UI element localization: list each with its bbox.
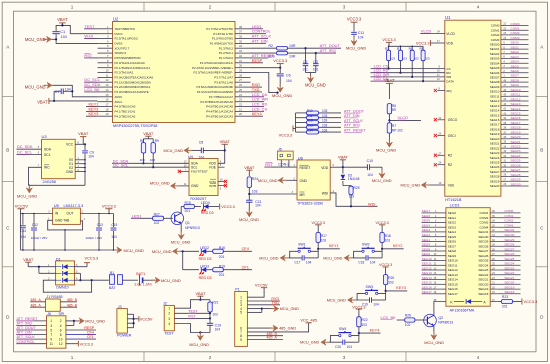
svg-text:37: 37 xyxy=(239,30,242,34)
power port VBAT at U3 VCC xyxy=(78,131,89,144)
svg-text:SEG23: SEG23 xyxy=(504,266,514,270)
svg-text:OSCO: OSCO xyxy=(448,118,458,122)
svg-text:VCC3.3: VCC3.3 xyxy=(102,204,117,209)
svg-text:P4.7/TB0CLK/CA7: P4.7/TB0CLK/CA7 xyxy=(209,95,233,99)
power VCC3.3 rail for LCD pull-ups xyxy=(382,38,423,47)
svg-text:COM3: COM3 xyxy=(511,36,520,40)
svg-text:MCU_GND: MCU_GND xyxy=(164,148,184,153)
net RST wire J2 pin3 xyxy=(174,313,211,323)
svg-text:4: 4 xyxy=(477,5,480,10)
svg-text:SEG31: SEG31 xyxy=(478,230,488,234)
svg-text:SEG25: SEG25 xyxy=(490,161,500,165)
svg-text:SEG17: SEG17 xyxy=(490,123,500,127)
svg-text:R11: R11 xyxy=(307,114,313,118)
svg-text:COM2: COM2 xyxy=(479,216,488,220)
ic U1 HT1621B body xyxy=(445,15,501,202)
svg-text:SEG5: SEG5 xyxy=(448,235,457,239)
svg-text:5: 5 xyxy=(50,328,52,332)
net label ATT_SCLK to J6 pin9 xyxy=(16,335,46,339)
svg-text:SEG19: SEG19 xyxy=(504,285,514,289)
svg-text:SEG1: SEG1 xyxy=(511,45,520,49)
svg-text:C1: C1 xyxy=(60,29,65,34)
net label ATT_DIN to J6 pin7 xyxy=(16,331,46,335)
svg-text:P4.4/TB0.1/A13/CA4: P4.4/TB0.1/A13/CA4 xyxy=(206,110,233,114)
svg-text:VCC3.3: VCC3.3 xyxy=(382,38,395,42)
svg-text:5: 5 xyxy=(240,311,242,315)
svg-text:SEG01: SEG01 xyxy=(490,47,500,51)
net label 485_A wires at J1 left xyxy=(30,298,45,307)
svg-text:31: 31 xyxy=(239,59,242,63)
svg-text:SEG14: SEG14 xyxy=(448,278,458,282)
power port VBAT above R24 xyxy=(244,165,255,176)
svg-text:SEG6: SEG6 xyxy=(511,69,520,73)
svg-text:4: 4 xyxy=(477,355,480,360)
svg-text:201: 201 xyxy=(185,209,191,213)
power VCC5V at P1 pin1 xyxy=(247,284,268,298)
ic U5 LM1117-3.3 body xyxy=(53,203,84,224)
svg-text:R4: R4 xyxy=(409,47,413,51)
svg-text:CF1: CF1 xyxy=(242,265,249,270)
svg-text:SEG8: SEG8 xyxy=(422,247,431,251)
svg-text:VCC3.3: VCC3.3 xyxy=(221,204,235,209)
power VCC3.3 feeding resistor array R10-R14 xyxy=(279,113,296,138)
svg-text:P1.1/TA0.0: P1.1/TA0.0 xyxy=(219,56,234,60)
resistor R11 103 to net ATT_DIN xyxy=(296,114,360,120)
svg-text:104: 104 xyxy=(111,235,117,239)
svg-text:VCC3.3: VCC3.3 xyxy=(347,17,362,22)
svg-text:103: 103 xyxy=(322,124,328,128)
svg-text:VBAT: VBAT xyxy=(338,155,349,160)
svg-text:104: 104 xyxy=(255,204,261,208)
svg-text:U3: U3 xyxy=(42,134,48,139)
svg-text:35: 35 xyxy=(239,39,242,43)
svg-text:KEY4: KEY4 xyxy=(370,328,380,332)
svg-text:SEG19: SEG19 xyxy=(478,287,488,291)
svg-text:104: 104 xyxy=(286,79,292,83)
svg-text:SEG16: SEG16 xyxy=(448,287,458,291)
svg-text:29: 29 xyxy=(239,69,242,73)
svg-text:SEG20: SEG20 xyxy=(490,137,500,141)
svg-text:VBAT: VBAT xyxy=(244,165,255,170)
svg-text:P2.0/TA1CLK/ACLK/A0: P2.0/TA1CLK/ACLK/A0 xyxy=(115,61,146,65)
svg-text:10: 10 xyxy=(106,69,109,73)
svg-text:24G256: 24G256 xyxy=(43,180,57,184)
capacitor C14 104 xyxy=(20,214,26,251)
svg-text:RED D3: RED D3 xyxy=(199,276,212,280)
ic U6 TPS3823-33DB body xyxy=(297,155,330,205)
wire/net DC_SCL bus to U4 xyxy=(113,164,190,168)
capacitor C18 104 xyxy=(358,255,375,264)
svg-text:C3: C3 xyxy=(313,60,318,64)
capacitor C20 104 xyxy=(335,340,352,349)
svg-text:ATT_DIN: ATT_DIN xyxy=(252,38,268,43)
svg-text:SEG19: SEG19 xyxy=(511,130,521,134)
resistor R27 102 xyxy=(153,213,173,226)
svg-text:ATT_IRQ: ATT_IRQ xyxy=(344,124,360,128)
connector J6 pin numbers xyxy=(50,319,63,346)
connector P1 pin numbers xyxy=(240,296,242,342)
svg-text:17: 17 xyxy=(106,103,109,107)
svg-text:R20: R20 xyxy=(388,276,394,280)
wire/net DC_SDA bus to U4 xyxy=(112,159,189,163)
svg-text:10R: 10R xyxy=(289,55,296,59)
svg-text:9: 9 xyxy=(50,337,52,341)
svg-text:SEG23: SEG23 xyxy=(511,149,521,153)
net label 485_A at P1 pin9 xyxy=(247,336,283,340)
power VCC3.3 and capacitor C6 at U2 pin30 xyxy=(251,58,293,98)
svg-text:104: 104 xyxy=(65,87,71,91)
resistor R24 103 xyxy=(247,177,258,194)
svg-text:SEG9: SEG9 xyxy=(511,83,520,87)
capacitor C9 104 xyxy=(82,144,94,185)
wire/net ATT_IRQ from R2b xyxy=(288,48,337,54)
svg-text:SEG3: SEG3 xyxy=(448,225,457,229)
svg-text:RESP: RESP xyxy=(252,58,263,63)
battery BAT1 3.6V 1.2Ah xyxy=(134,272,151,287)
svg-text:SEG03: SEG03 xyxy=(490,57,500,61)
svg-text:HT1621B: HT1621B xyxy=(445,197,462,202)
net label KEY1 xyxy=(317,244,340,250)
svg-text:SEG7: SEG7 xyxy=(422,209,431,213)
svg-text:ATT_RESET: ATT_RESET xyxy=(344,129,366,133)
svg-text:RED D3: RED D3 xyxy=(201,211,214,215)
svg-text:RST: RST xyxy=(188,315,196,319)
net label ATT_RESET at U2 pin32 xyxy=(251,53,275,58)
battery holder B1 BAT xyxy=(109,271,138,290)
led LED2 RED D3 xyxy=(183,246,213,261)
svg-text:MCU_GND: MCU_GND xyxy=(152,249,172,254)
svg-text:38: 38 xyxy=(239,25,242,29)
svg-text:R15: R15 xyxy=(185,201,191,205)
svg-text:J6: J6 xyxy=(47,312,51,316)
svg-text:ATT_SCLK: ATT_SCLK xyxy=(344,119,363,123)
svg-text:30: 30 xyxy=(239,64,242,68)
svg-text:C13: C13 xyxy=(97,223,103,227)
svg-text:C7: C7 xyxy=(55,90,60,94)
svg-text:P3.0/UCB0STE/UCA0CLK/A5: P3.0/UCB0STE/UCA0CLK/A5 xyxy=(115,76,154,80)
led LED4 RED D3 xyxy=(201,201,220,215)
svg-text:ATT_DOUT: ATT_DOUT xyxy=(344,109,364,113)
svg-text:ATT_DIN: ATT_DIN xyxy=(344,114,360,118)
net label RESP at J6 pin6 xyxy=(66,326,96,330)
switch SW3 xyxy=(365,285,378,295)
svg-text:SEG22: SEG22 xyxy=(504,271,514,275)
ground MCU_GND right of C10 xyxy=(372,167,392,183)
svg-text:R2: R2 xyxy=(385,47,389,51)
svg-text:SEG3: SEG3 xyxy=(422,228,431,232)
svg-text:102: 102 xyxy=(154,221,160,225)
svg-text:10R: 10R xyxy=(289,44,296,48)
svg-text:MCU_GND: MCU_GND xyxy=(327,299,346,303)
svg-text:C12: C12 xyxy=(32,223,38,227)
svg-text:103: 103 xyxy=(322,128,328,132)
svg-text:104: 104 xyxy=(347,345,353,349)
wire/net LCD_CS to U1 CS pin9 xyxy=(371,64,451,70)
svg-text:MCU_GND: MCU_GND xyxy=(424,340,444,345)
svg-text:J2: J2 xyxy=(163,302,167,306)
svg-text:SEG05: SEG05 xyxy=(490,66,500,70)
svg-text:U6: U6 xyxy=(298,155,304,160)
net labels SEG at LCD1 left xyxy=(422,209,438,294)
svg-text:VBAT: VBAT xyxy=(23,257,34,262)
svg-text:485_B: 485_B xyxy=(67,303,78,307)
wire/net LCD_DA to U1 DATA pin12 xyxy=(371,77,454,83)
svg-text:104: 104 xyxy=(215,327,221,331)
svg-text:R18: R18 xyxy=(385,234,391,238)
svg-text:SPI: SPI xyxy=(59,312,65,316)
svg-text:SEG6: SEG6 xyxy=(448,240,457,244)
ground MCU_GND at C2 C3 xyxy=(305,73,326,88)
svg-text:P1.4/SMCLK/TCK: P1.4/SMCLK/TCK xyxy=(210,42,233,46)
net label CF4 at J6 pin8 xyxy=(66,331,96,335)
power VCC3.3 above R17 xyxy=(312,221,325,232)
svg-text:LCD_BK: LCD_BK xyxy=(84,87,100,92)
ground MCU_GND at U4 GND pin11 xyxy=(150,180,189,189)
svg-text:W-DI: W-DI xyxy=(84,34,93,39)
svg-text:RESET: RESET xyxy=(300,166,311,170)
svg-text:DATA: DATA xyxy=(446,79,454,83)
svg-text:8R: 8R xyxy=(392,108,397,112)
svg-text:P4.6/TB0OUTH/A15/CA6: P4.6/TB0OUTH/A15/CA6 xyxy=(200,100,233,104)
led LED3 RED D3 xyxy=(183,264,213,279)
svg-text:2: 2 xyxy=(60,319,62,323)
svg-text:SEG7: SEG7 xyxy=(511,74,520,78)
svg-text:COM2: COM2 xyxy=(511,31,520,35)
svg-text:104: 104 xyxy=(61,35,67,39)
resistor R8 103 xyxy=(140,139,146,165)
svg-text:XIN/P2.6: XIN/P2.6 xyxy=(115,51,127,55)
power VCC3.3 above R18 xyxy=(375,221,388,232)
svg-text:SEG24: SEG24 xyxy=(504,262,514,266)
ground MCU_GND at J2 xyxy=(189,332,209,347)
svg-text:SEG24: SEG24 xyxy=(478,263,488,267)
svg-text:NP-102: NP-102 xyxy=(392,128,403,132)
svg-text:SEG27: SEG27 xyxy=(490,170,500,174)
svg-text:SEG08: SEG08 xyxy=(490,80,500,84)
svg-text:103: 103 xyxy=(402,57,407,61)
svg-text:R9: R9 xyxy=(155,139,159,143)
svg-text:RED D3: RED D3 xyxy=(199,257,212,261)
svg-text:COM0: COM0 xyxy=(491,24,500,28)
svg-text:P2.5/TA1.0/ROSC: P2.5/TA1.0/ROSC xyxy=(115,37,138,41)
svg-text:11: 11 xyxy=(50,342,54,346)
svg-text:SEG22: SEG22 xyxy=(511,145,521,149)
svg-text:19: 19 xyxy=(106,112,109,116)
svg-text:SEG17: SEG17 xyxy=(448,292,458,296)
capacitor C2 101 xyxy=(302,48,308,72)
svg-text:SEG1: SEG1 xyxy=(422,238,431,242)
svg-text:VDD: VDD xyxy=(321,166,329,170)
ic U1 right pins COM0-COM3 SEG00-SEG30 xyxy=(490,23,509,188)
svg-text:MCU_GND: MCU_GND xyxy=(259,256,278,260)
svg-text:P4.3/TB0.0/A12/CA3: P4.3/TB0.0/A12/CA3 xyxy=(206,114,233,118)
power VCC3.3 at J6 pin12 xyxy=(66,341,93,347)
ic U1 RZb pin26 no-connect xyxy=(434,162,452,167)
resistor R7 NP-102 xyxy=(387,120,403,141)
svg-text:201: 201 xyxy=(219,255,225,259)
svg-text:23: 23 xyxy=(239,98,242,102)
svg-text:SEG20: SEG20 xyxy=(504,281,514,285)
svg-text:MCU_GND: MCU_GND xyxy=(280,307,299,311)
svg-text:COM3: COM3 xyxy=(504,224,513,228)
svg-text:SEG14: SEG14 xyxy=(511,107,521,111)
svg-text:J1 RS485: J1 RS485 xyxy=(46,295,62,299)
svg-text:OSCI: OSCI xyxy=(448,134,456,138)
svg-text:P3.6/TA1.1/A6: P3.6/TA1.1/A6 xyxy=(214,80,233,84)
ground MCU_GND at Q1 emitter xyxy=(171,224,191,245)
svg-text:485_A: 485_A xyxy=(30,303,41,307)
svg-text:WDI: WDI xyxy=(322,192,328,196)
svg-text:16: 16 xyxy=(106,98,109,102)
resistor R6 8R2 xyxy=(387,104,396,121)
capacitor C8 104 at U4 VDD xyxy=(196,140,225,159)
svg-text:P4.2/TB2.0/CA2: P4.2/TB2.0/CA2 xyxy=(115,114,136,118)
ic U2 right pins 20-38 xyxy=(192,25,250,119)
svg-text:SEG4: SEG4 xyxy=(422,224,431,228)
svg-text:2: 2 xyxy=(209,5,212,10)
wires switch SW2 loop xyxy=(354,249,383,258)
svg-text:DC_SCL: DC_SCL xyxy=(17,151,32,155)
resistor R3 103 pull-up xyxy=(397,46,407,73)
svg-text:103: 103 xyxy=(425,57,430,61)
svg-text:CF4: CF4 xyxy=(242,246,250,251)
svg-text:SEG26: SEG26 xyxy=(511,163,521,167)
svg-text:LED2: LED2 xyxy=(200,246,209,250)
power VCC3.3 at R23 xyxy=(522,299,537,305)
svg-text:2: 2 xyxy=(209,355,212,360)
svg-text:P2.4/TA0.2/A4/VREF+/VEREF+: P2.4/TA0.2/A4/VREF+/VEREF+ xyxy=(192,66,233,70)
svg-text:SEG4: SEG4 xyxy=(448,230,457,234)
svg-text:SEG18: SEG18 xyxy=(490,127,500,131)
svg-text:R27: R27 xyxy=(154,213,160,217)
net label TEST at U2 pin1 xyxy=(84,24,97,29)
svg-text:18: 18 xyxy=(106,107,109,111)
net labels COM/SEG at LCD1 right xyxy=(498,209,521,294)
svg-text:P3.4/UCA0TXD/UCA0SIMO: P3.4/UCA0TXD/UCA0SIMO xyxy=(197,90,234,94)
net label RXD at P1 pin2 xyxy=(247,297,280,301)
svg-text:VLCD: VLCD xyxy=(421,29,432,34)
svg-text:P2.2/TA0.0/A2: P2.2/TA0.0/A2 xyxy=(115,71,134,75)
resistor R15 201 at Q1 collector xyxy=(181,201,201,213)
power VCC5V at J3 xyxy=(139,316,153,322)
power port VBAT at U2 AVCC xyxy=(37,98,97,104)
svg-text:P2.3/TA0.1/A3/VREF-/VEREF-: P2.3/TA0.1/A3/VREF-/VEREF- xyxy=(194,71,234,75)
net label KEY2 xyxy=(381,244,404,250)
net VLCD wire to U1 pin34 xyxy=(420,29,455,36)
power VCC_485 at P1 pin7 xyxy=(247,319,316,332)
ground MCU_GND at C8 xyxy=(164,147,196,153)
connector LCD1 AF130166TMA body xyxy=(446,202,490,312)
ground MCU_GND at Q2 emitter xyxy=(424,326,444,345)
svg-text:SEG18: SEG18 xyxy=(511,126,521,130)
ic U6 pin names xyxy=(300,165,329,197)
power port VBAT at U4 VDD xyxy=(218,139,230,163)
svg-text:103: 103 xyxy=(321,239,327,243)
resistor R17 103 xyxy=(316,233,327,249)
svg-text:3: 3 xyxy=(343,5,346,10)
net label CONTROL to J6 pin11 xyxy=(16,340,46,344)
svg-text:VBAT: VBAT xyxy=(78,131,89,136)
svg-text:SEG29: SEG29 xyxy=(478,240,488,244)
svg-text:OUT: OUT xyxy=(67,212,74,216)
connector J2 TEST body xyxy=(163,302,175,336)
svg-text:104: 104 xyxy=(199,155,205,159)
svg-text:R7: R7 xyxy=(392,124,396,128)
svg-text:P1.7/TA0.2/TDO/TDI: P1.7/TA0.2/TDO/TDI xyxy=(206,27,233,31)
wire LCD1 K to Q2 collector xyxy=(434,302,438,316)
diode D2 1N4148 xyxy=(341,167,360,185)
svg-text:SEG1: SEG1 xyxy=(448,216,457,220)
svg-text:102: 102 xyxy=(405,323,411,327)
svg-text:103: 103 xyxy=(322,114,328,118)
svg-text:1: 1 xyxy=(71,355,74,360)
wire D1 pin5 to battery rail xyxy=(75,264,109,282)
svg-text:VDD: VDD xyxy=(446,41,453,45)
svg-text:SEG3: SEG3 xyxy=(511,55,520,59)
capacitor C17 104 xyxy=(294,255,311,264)
power VCC3.3 at LED4 xyxy=(220,204,235,210)
ic U1 RZ pin27 no-connect xyxy=(434,152,452,157)
svg-text:R5: R5 xyxy=(420,47,424,51)
svg-text:B: B xyxy=(6,148,9,153)
svg-text:SEG30: SEG30 xyxy=(478,235,488,239)
svg-text:SEG0: SEG0 xyxy=(511,41,520,45)
net label LED1 to R27 xyxy=(131,213,153,218)
power VCC3.3 output xyxy=(102,204,117,214)
svg-text:SEG15: SEG15 xyxy=(422,281,432,285)
svg-text:VSS: VSS xyxy=(448,183,454,187)
svg-text:P1.0/TA0CLK/ADC10CLK: P1.0/TA0CLK/ADC10CLK xyxy=(200,61,233,65)
svg-text:P3.2/UCB0SOMI/UCB0SCL: P3.2/UCB0SOMI/UCB0SCL xyxy=(115,85,151,89)
svg-text:VCC5V: VCC5V xyxy=(255,284,268,288)
ic U4 INTA INTB no-connect xyxy=(218,178,227,190)
svg-text:MCU_GND: MCU_GND xyxy=(258,178,278,183)
svg-text:MCU_GND: MCU_GND xyxy=(150,180,170,185)
svg-text:DMN10: DMN10 xyxy=(56,286,68,290)
connector J3 POWER body xyxy=(117,305,132,338)
ground MCU_GND below R7 xyxy=(376,139,396,152)
svg-text:103: 103 xyxy=(362,323,368,327)
ground rail MCU_GND of regulator xyxy=(20,214,143,254)
svg-text:10: 10 xyxy=(59,337,63,341)
svg-text:U5: U5 xyxy=(54,203,60,208)
svg-text:SEG02: SEG02 xyxy=(490,52,500,56)
net label RESP at U2 pin31 xyxy=(251,58,264,63)
svg-text:SEG4: SEG4 xyxy=(511,60,520,64)
wire U2 pin29 VREF- to ground xyxy=(251,73,279,94)
svg-text:SEG16: SEG16 xyxy=(511,116,521,120)
capacitor C19 104 xyxy=(207,323,221,332)
svg-text:C10: C10 xyxy=(367,159,373,163)
svg-text:103: 103 xyxy=(322,119,328,123)
svg-text:LCD_BK: LCD_BK xyxy=(381,315,397,320)
svg-text:101: 101 xyxy=(313,68,319,72)
svg-text:SEG16: SEG16 xyxy=(422,285,432,289)
svg-text:CONTROL: CONTROL xyxy=(17,340,35,344)
ic U4 FOUT/TEST pin no-connect xyxy=(178,168,189,173)
resistor R13 103 to net ATT_IRQ xyxy=(296,124,360,130)
svg-text:SEG30: SEG30 xyxy=(490,184,500,188)
svg-text:MCU_GND: MCU_GND xyxy=(85,318,105,323)
power port VBAT at J2 xyxy=(195,291,205,301)
svg-text:LED4: LED4 xyxy=(201,201,210,205)
net label WDI at U2 pin3 xyxy=(84,34,97,39)
net label ATT_DIN at U2 pin35 xyxy=(251,38,268,43)
svg-text:SEG12: SEG12 xyxy=(490,99,500,103)
net label DC_SDA to U3 SDA pin6 xyxy=(17,145,42,149)
svg-text:SEG28: SEG28 xyxy=(478,244,488,248)
svg-text:21: 21 xyxy=(239,107,242,111)
